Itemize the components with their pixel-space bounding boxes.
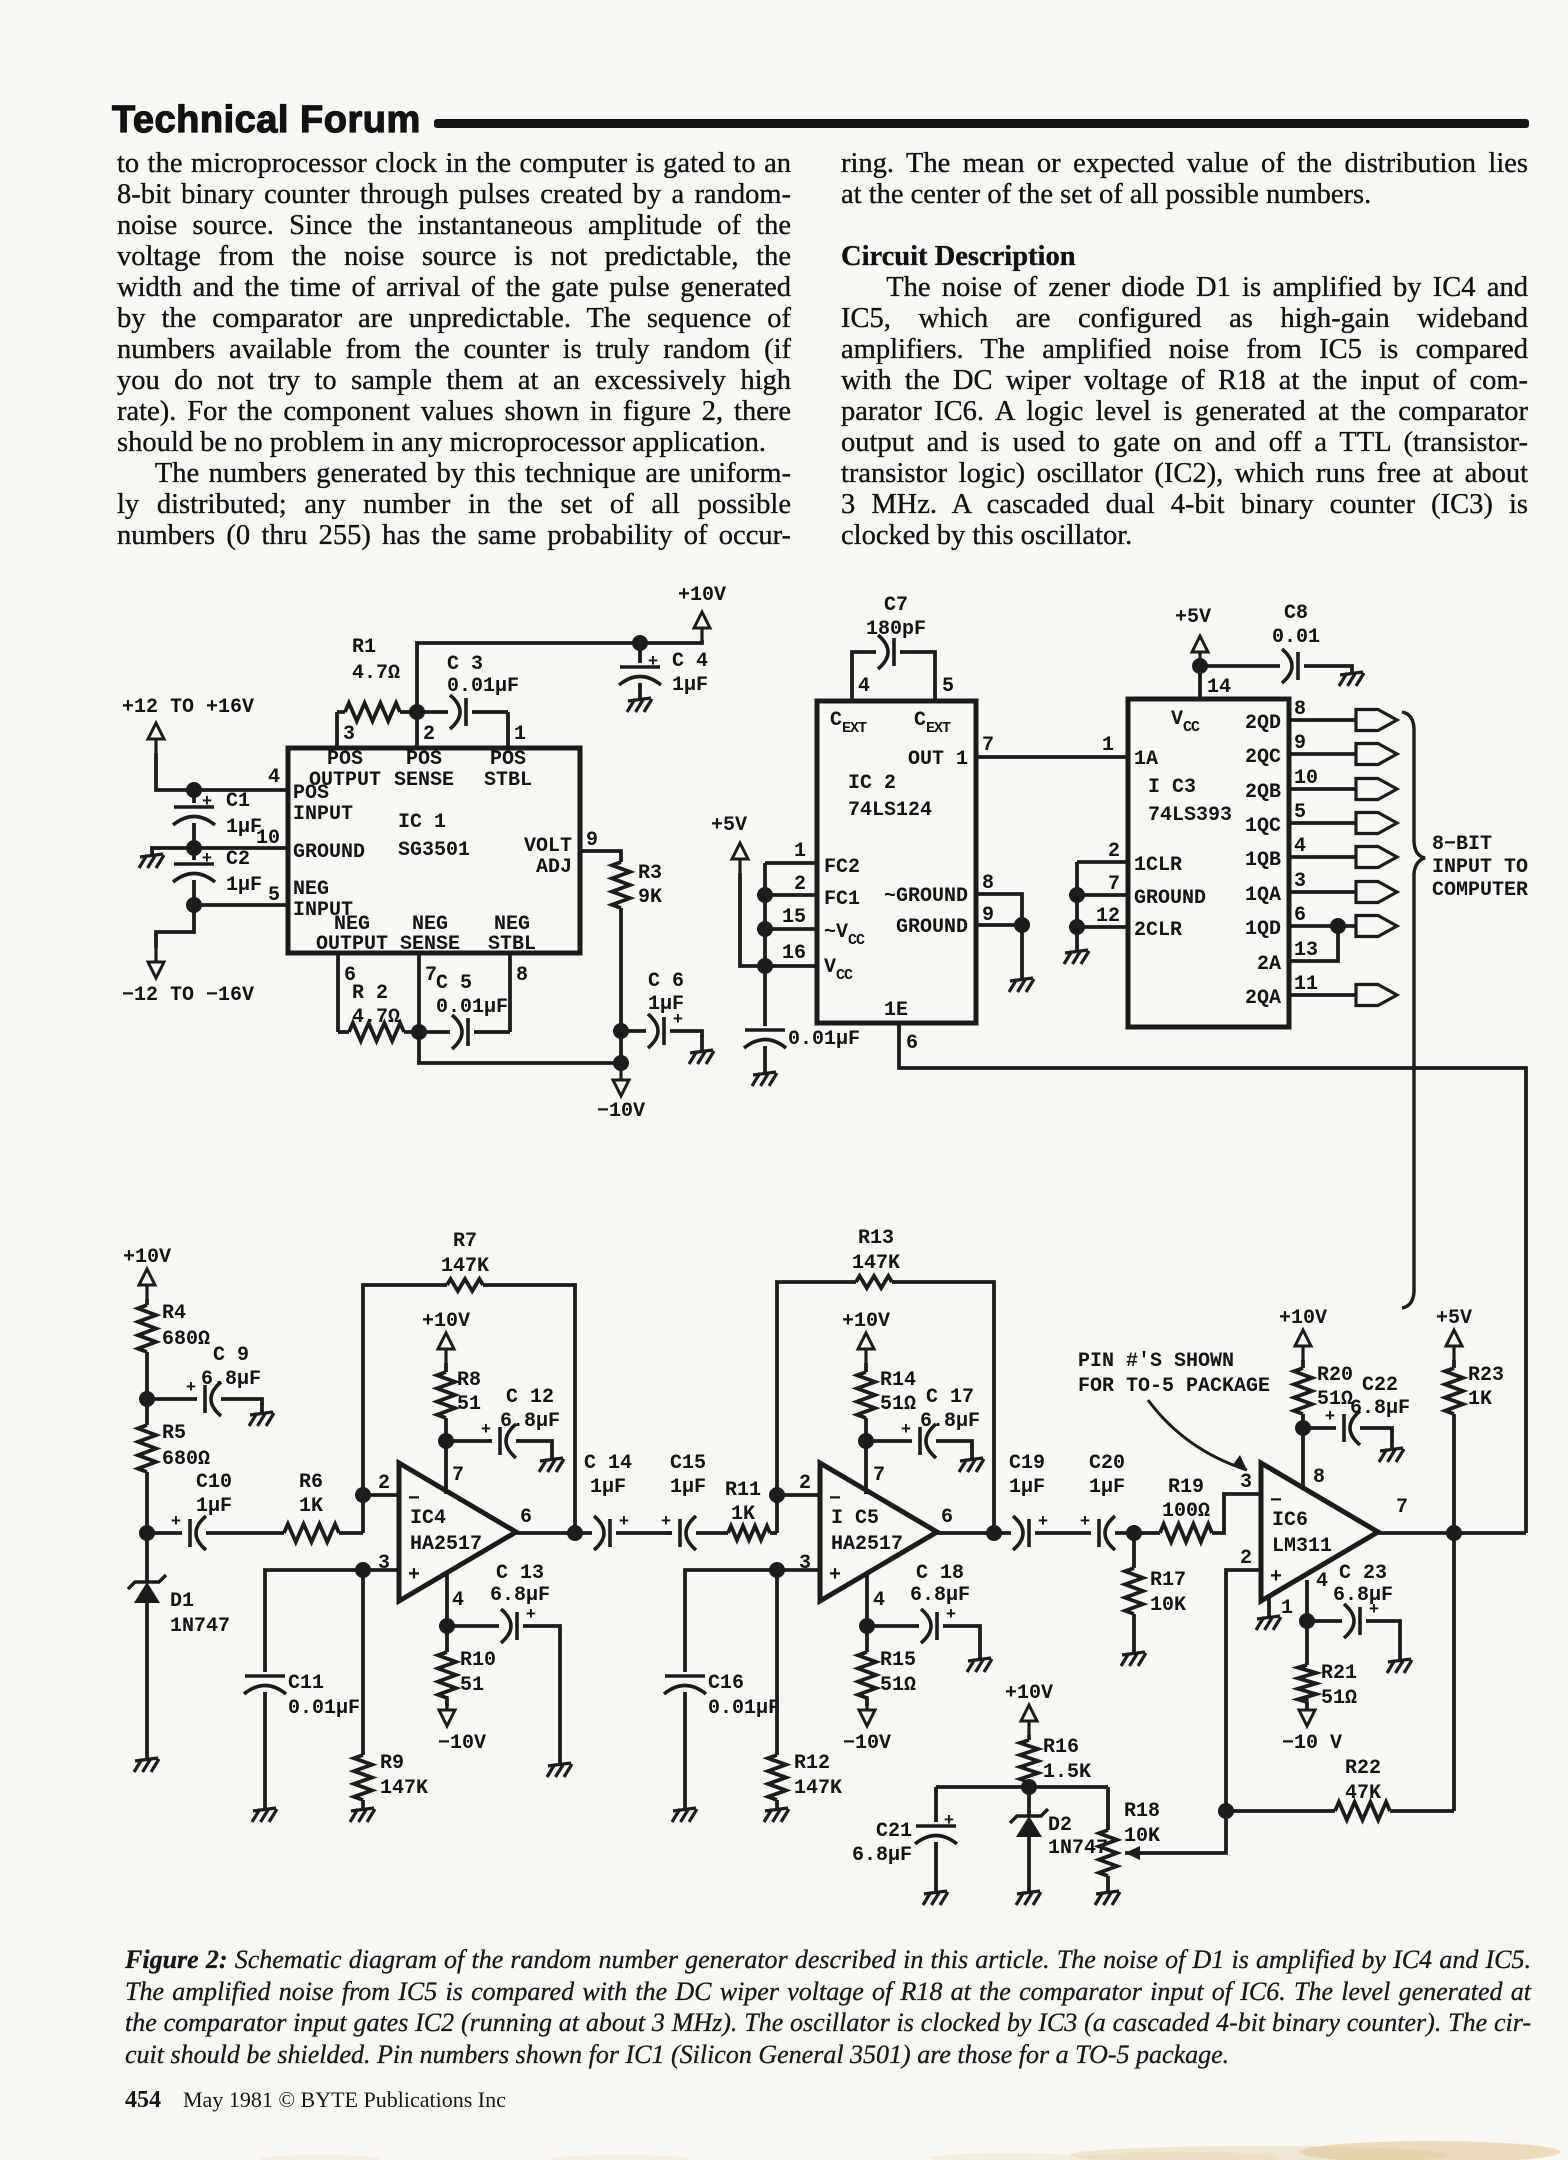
brace 8-bit bus [1402, 712, 1425, 1308]
svg-text:6: 6 [1294, 904, 1306, 927]
zener diode D2 1N747 [1010, 1809, 1048, 1837]
resistor R11 1K [728, 1526, 770, 1540]
svg-text:8: 8 [982, 872, 994, 895]
wire IC6 output [1378, 1531, 1526, 1535]
wire IC3 1QB output [1289, 855, 1356, 859]
svg-text:1A: 1A [1134, 748, 1158, 771]
capacitor C7 180pF [878, 635, 894, 669]
wire R8 top [444, 1363, 448, 1372]
ground C16 [672, 1808, 697, 1822]
wire R14 to node [864, 1418, 868, 1494]
svg-text:2: 2 [794, 873, 806, 896]
wire IC5 fb left vertical [777, 1282, 856, 1533]
capacitor C15 1uF [661, 1513, 696, 1550]
svg-text:4: 4 [1316, 1570, 1328, 1593]
svg-text:VOLTADJ: VOLTADJ [524, 835, 572, 879]
op-amp U-IC5 HA2517 [820, 1463, 937, 1601]
wire IC1 pin3 stub [335, 712, 339, 748]
power +10V R4 [123, 1246, 171, 1299]
wire IC3 1QA output [1289, 890, 1356, 894]
flag output 2QB [1356, 779, 1397, 800]
wire C2 top lead [192, 848, 196, 860]
flag output 1QD [1356, 916, 1397, 937]
wire C19 to C20 [1035, 1531, 1091, 1535]
svg-text:2CLR: 2CLR [1134, 919, 1182, 942]
resistor R5 680ohm [138, 1425, 156, 1472]
node IC4 out [567, 1525, 583, 1541]
wire R9 tail [361, 1800, 365, 1808]
power +10V top [678, 584, 726, 642]
svg-text:0.01μF: 0.01μF [788, 1028, 860, 1051]
svg-text:−10 V: −10 V [1282, 1732, 1342, 1755]
capacitor C14 1uF [594, 1513, 629, 1550]
ground D2 [1016, 1891, 1041, 1905]
ground C4 [627, 698, 652, 712]
svg-text:7: 7 [982, 734, 994, 757]
power -10V R21 [1299, 1696, 1315, 1726]
ground C6 [689, 1050, 714, 1064]
wire R19 to pin3 [1212, 1494, 1261, 1533]
resistor R2 4.7ohm [349, 1023, 404, 1041]
capacitor C8 0.01 [1282, 649, 1298, 683]
potentiometer R18 10K [1099, 1830, 1117, 1876]
svg-text:+10V: +10V [422, 1310, 470, 1333]
wire R13 right to output [892, 1282, 994, 1533]
svg-text:R1551Ω: R1551Ω [880, 1649, 916, 1697]
svg-text:C 126.8μF: C 126.8μF [500, 1386, 560, 1433]
wire C16 tail [683, 1692, 687, 1808]
wire pin3 to C16 [685, 1570, 777, 1672]
wire IC1 pin2 stub [415, 712, 419, 748]
svg-text:6: 6 [906, 1032, 918, 1055]
resistor R16 1.5K [1020, 1740, 1038, 1782]
wire C9 left lead [147, 1397, 197, 1401]
capacitor IC2 bypass 0.01uF [744, 1030, 786, 1048]
node bottom rail right [613, 1055, 629, 1071]
svg-text:R2151Ω: R2151Ω [1321, 1662, 1357, 1710]
svg-text:+: + [408, 1564, 420, 1587]
svg-text:8−BITINPUT TOCOMPUTER: 8−BITINPUT TOCOMPUTER [1432, 833, 1528, 902]
wire C18 left lead [867, 1624, 919, 1628]
svg-text:1: 1 [1281, 1597, 1293, 1620]
wire C15 right [696, 1531, 728, 1535]
svg-text:CEXT: CEXT [830, 709, 867, 737]
svg-text:I C5HA2517: I C5HA2517 [831, 1507, 903, 1556]
wire bias rail [936, 1785, 1108, 1789]
svg-text:R2247K: R2247K [1345, 1757, 1381, 1805]
resistor R20 51ohm [1294, 1368, 1312, 1414]
svg-text:C101μF: C101μF [196, 1471, 232, 1518]
wire C6 right lead [670, 1031, 702, 1050]
wire C21 tail [934, 1842, 938, 1891]
bottom edge scan smudge [0, 2128, 1568, 2160]
wire R1 leads [337, 710, 345, 714]
svg-text:+: + [944, 1812, 954, 1831]
node C20 out [1126, 1525, 1142, 1541]
wire R4 top lead [145, 1299, 149, 1305]
svg-text:10: 10 [1294, 767, 1318, 790]
resistor R4 680ohm [138, 1305, 156, 1352]
wire R12 tail [775, 1800, 779, 1808]
node bus pin15 [757, 921, 773, 937]
power +5V IC2 arrow [732, 843, 748, 873]
wire R3 to C6 node [619, 908, 623, 1063]
svg-text:C110.01μF: C110.01μF [288, 1672, 360, 1720]
ground C22 [1379, 1448, 1404, 1462]
node R16 rail [1021, 1779, 1037, 1795]
ground IC2 bypass [752, 1072, 777, 1086]
wire R21 tail [1305, 1702, 1309, 1708]
wire R14 top [864, 1363, 868, 1372]
wire 2CLR row [1077, 925, 1128, 929]
node 1QD to 2A [1330, 918, 1346, 934]
wire IC6 pin1 [1267, 1596, 1271, 1616]
flag output 2QD [1356, 710, 1397, 731]
svg-text:C191μF: C191μF [1009, 1452, 1045, 1499]
wire pin2 node to +10V rail [417, 643, 640, 712]
power +10V R8 [422, 1310, 470, 1363]
wire C17 left lead [866, 1439, 912, 1443]
svg-text:2: 2 [1240, 1547, 1252, 1570]
capacitor C1 1uF [173, 793, 215, 825]
capacitor C19 1uF [1013, 1513, 1048, 1550]
resistor R23 1K [1445, 1368, 1463, 1414]
wire C14 to C15 [616, 1531, 672, 1535]
wire IC3 2QC output [1289, 752, 1356, 756]
flag output 2QC [1356, 744, 1397, 765]
svg-text:1E: 1E [884, 999, 908, 1022]
svg-text:R1451Ω: R1451Ω [880, 1369, 916, 1416]
node clr bus 2clr [1069, 919, 1085, 935]
wire +5V stem [740, 873, 816, 966]
svg-text:+: + [1325, 1408, 1335, 1427]
svg-text:C 176.8μF: C 176.8μF [920, 1386, 980, 1433]
op-amp U-IC6 LM311 [1261, 1463, 1378, 1601]
wire R16 top [1027, 1735, 1031, 1740]
svg-text:15: 15 [782, 906, 806, 929]
svg-text:C80.01: C80.01 [1272, 602, 1320, 649]
capacitor C16 0.01uF [664, 1676, 706, 1694]
svg-text:+10V: +10V [1005, 1682, 1053, 1705]
wire pin7 to bottom rail [419, 1032, 621, 1063]
ground C11 [252, 1808, 277, 1822]
wire IC5 output [937, 1531, 1011, 1535]
resistor R3 9K [612, 862, 630, 908]
resistor R22 47K [1335, 1802, 1390, 1820]
ground C13 [547, 1763, 572, 1777]
wire IC2 pin1 row [765, 861, 816, 865]
wire C17 right lead [936, 1441, 972, 1458]
IC U-IC2 box 74LS124 [817, 701, 976, 1023]
ground R18 [1095, 1891, 1120, 1905]
svg-text:+12 TO +16V: +12 TO +16V [122, 696, 254, 719]
wire IC5 pin3 stub [777, 1568, 820, 1572]
svg-text:C11μF: C11μF [226, 790, 262, 839]
capacitor C4 1uF [619, 653, 661, 685]
wire R17 top [1132, 1533, 1136, 1568]
svg-text:C21μF: C21μF [226, 848, 262, 897]
node clr bus gnd [1069, 887, 1085, 903]
node IC5 out [986, 1525, 1002, 1541]
node R22 pin2 [1218, 1803, 1234, 1819]
svg-text:+: + [526, 1606, 536, 1625]
svg-text:CEXT: CEXT [914, 709, 951, 737]
wire +12V to pin4 [156, 753, 270, 790]
svg-text:IC6LM311: IC6LM311 [1272, 1509, 1332, 1558]
wire C12 left lead [446, 1439, 492, 1443]
svg-text:+5V: +5V [1175, 606, 1211, 629]
wire R20 top [1301, 1360, 1305, 1368]
resistor R7 147K [447, 1279, 483, 1291]
svg-text:R4680Ω: R4680Ω [162, 1302, 210, 1351]
wire R20 to node [1301, 1414, 1305, 1490]
svg-text:+: + [481, 1421, 491, 1440]
svg-text:R1051: R1051 [460, 1649, 496, 1697]
wire C23 right lead [1366, 1621, 1400, 1659]
node pin9 gnd [1014, 917, 1030, 933]
wire IC6 pin4 [1305, 1580, 1309, 1621]
wire IC1 pin1 stub [506, 712, 510, 748]
node +5V C8 [1192, 658, 1208, 674]
svg-text:2QC: 2QC [1245, 746, 1281, 769]
svg-text:4: 4 [268, 766, 280, 789]
wire IC2 1E to comparator [899, 1023, 1526, 1533]
ground IC6 pin1 [1256, 1616, 1281, 1630]
svg-text:C226.8μF: C226.8μF [1350, 1374, 1410, 1420]
node IC4 pin3 [355, 1562, 371, 1578]
svg-text:3: 3 [1294, 870, 1306, 893]
svg-text:VCC: VCC [824, 956, 853, 984]
wire R19 left [1134, 1531, 1160, 1535]
wire C2 bottom lead [192, 880, 196, 905]
ground IC3 clr bus [1064, 950, 1089, 964]
pot wiper arrow [1125, 1846, 1140, 1860]
svg-text:+: + [1038, 1513, 1048, 1532]
node IC4 pin2 [355, 1487, 371, 1503]
wire C3 left lead [417, 710, 448, 714]
resistor R9 147K [354, 1755, 372, 1800]
wire C1 bottom lead [192, 823, 196, 848]
wire to -12V [156, 905, 194, 948]
svg-text:3: 3 [343, 723, 355, 746]
svg-text:FC2: FC2 [824, 856, 860, 879]
resistor R15 51ohm [858, 1652, 876, 1698]
wire R23 top [1452, 1360, 1456, 1368]
svg-text:5: 5 [1294, 801, 1306, 824]
svg-text:C151μF: C151μF [670, 1452, 706, 1499]
power -10V R15 [859, 1696, 875, 1726]
wire R18 top [1106, 1787, 1110, 1830]
svg-text:GROUND: GROUND [293, 841, 365, 864]
capacitor C3 0.01uF [450, 695, 466, 729]
node IC1 pin2 junction [409, 704, 425, 720]
wire pin4 stub [270, 788, 288, 792]
resistor R14 51ohm [857, 1372, 875, 1418]
svg-text:5: 5 [942, 675, 954, 698]
wire pin5 stub [194, 903, 288, 907]
svg-text:+: + [1270, 1566, 1282, 1589]
flag output 1QB [1356, 847, 1397, 868]
wire R10 tail [445, 1698, 449, 1706]
ground R17 [1121, 1652, 1146, 1666]
svg-text:PIN #'S SHOWNFOR TO-5 PACKAGE: PIN #'S SHOWNFOR TO-5 PACKAGE [1078, 1350, 1270, 1398]
svg-text:2QD: 2QD [1245, 712, 1281, 735]
wire IC4 pin3 stub [363, 1568, 399, 1572]
resistor R6 1K [284, 1524, 339, 1542]
ground R9 [350, 1808, 375, 1822]
svg-text:NEGSTBL: NEGSTBL [488, 913, 536, 956]
wire R7 right to output [483, 1285, 575, 1533]
svg-text:2: 2 [378, 1472, 390, 1495]
svg-text:C201μF: C201μF [1089, 1452, 1125, 1499]
svg-text:FC1: FC1 [824, 888, 860, 911]
svg-text:C 236.8μF: C 236.8μF [1333, 1562, 1393, 1607]
svg-text:1QA: 1QA [1245, 884, 1281, 907]
wire C23 left lead [1307, 1619, 1342, 1623]
svg-text:+: + [901, 1421, 911, 1440]
svg-text:2QB: 2QB [1245, 781, 1281, 804]
svg-text:C 41μF: C 41μF [672, 650, 708, 697]
wire rail to +10V arrow [640, 640, 702, 643]
svg-text:7: 7 [1108, 873, 1120, 896]
header rule [434, 119, 1529, 128]
wire C11 tail [263, 1692, 267, 1808]
wire node to pin10 [194, 846, 288, 850]
wire C10 left lead [147, 1531, 182, 1535]
node D1 C10 [139, 1525, 155, 1541]
svg-text:−10V: −10V [843, 1732, 891, 1755]
svg-text:14: 14 [1207, 676, 1231, 699]
svg-text:+: + [171, 1513, 181, 1532]
svg-text:+: + [202, 850, 212, 869]
wire D2 top [1027, 1787, 1031, 1816]
svg-text:2: 2 [1108, 840, 1120, 863]
wire bypass to ground [763, 1046, 767, 1072]
capacitor C20 1uF [1080, 1513, 1115, 1550]
node ground row [186, 840, 202, 856]
svg-text:1: 1 [794, 840, 806, 863]
power -10V left [613, 1066, 629, 1096]
svg-text:C216.8μF: C216.8μF [852, 1820, 912, 1867]
wire D1 top lead [145, 1533, 149, 1582]
svg-text:R12147K: R12147K [794, 1752, 842, 1800]
flag output 1QA [1356, 882, 1397, 903]
resistor R8 51 [437, 1372, 455, 1418]
wire C20 right [1115, 1531, 1134, 1535]
svg-text:R231K: R231K [1468, 1364, 1504, 1411]
svg-text:OUT 1: OUT 1 [908, 748, 968, 771]
svg-text:C160.01μF: C160.01μF [708, 1672, 780, 1720]
svg-text:1CLR: 1CLR [1134, 854, 1182, 877]
svg-text:11: 11 [1294, 973, 1318, 996]
flag output 1QC [1356, 813, 1397, 834]
wire node to ground [152, 848, 194, 854]
wire IC4 pin2 stub [363, 1493, 399, 1497]
header Technical Forum [112, 99, 421, 142]
capacitor C6 1uF [648, 1011, 683, 1048]
capacitor C10 1uF [171, 1513, 206, 1550]
power +10V R20 [1279, 1307, 1327, 1360]
svg-text:D11N747: D11N747 [170, 1590, 230, 1638]
capacitor C17 6.8uF [901, 1421, 936, 1458]
wire IC2 pin4 stub [852, 652, 876, 701]
svg-text:+10V: +10V [1279, 1307, 1327, 1330]
wire IC4 output [516, 1531, 592, 1535]
node pin7 bottom [411, 1024, 427, 1040]
svg-text:C 136.8μF: C 136.8μF [490, 1562, 550, 1607]
svg-text:3: 3 [1240, 1471, 1252, 1494]
wire C5 right lead [474, 1030, 510, 1034]
wire IC5 pin4 [865, 1573, 869, 1626]
power +5V IC3 arrow [1192, 636, 1208, 666]
wire IC4 fb left vertical [363, 1285, 447, 1533]
wire D1 bottom lead [145, 1603, 149, 1758]
capacitor C22 6.8uF [1325, 1408, 1360, 1445]
wire R22 row right [1390, 1809, 1454, 1813]
power +12V arrow [148, 723, 164, 753]
ground C1 C2 [139, 854, 164, 868]
capacitor C2 1uF [173, 850, 215, 882]
svg-text:16: 16 [782, 942, 806, 965]
svg-text:+: + [661, 1513, 671, 1532]
wire C1 top lead [192, 790, 196, 803]
resistor R19 100ohm [1160, 1524, 1212, 1542]
resistor R12 147K [768, 1755, 786, 1800]
svg-text:+: + [619, 1513, 629, 1532]
svg-text:+: + [186, 1379, 196, 1398]
wire IC4 pin4 [445, 1573, 449, 1626]
svg-text:8: 8 [516, 964, 528, 987]
wire IC3 2QB output [1289, 787, 1356, 791]
svg-text:1QB: 1QB [1245, 849, 1281, 872]
svg-text:4: 4 [1294, 835, 1306, 858]
wire R21 top [1305, 1621, 1309, 1665]
power -12V arrow [148, 948, 164, 978]
ground C18 [967, 1658, 992, 1672]
wire IC2 pin15 row [765, 927, 816, 931]
wire C8 right [1304, 666, 1352, 672]
svg-text:R19100Ω: R19100Ω [1162, 1476, 1210, 1523]
svg-text:R14.7Ω: R14.7Ω [352, 636, 400, 685]
wire C7 right [900, 652, 935, 701]
wire R2 left lead [338, 1030, 349, 1034]
svg-text:−10V: −10V [597, 1100, 645, 1123]
wire R11 to IC5 [770, 1531, 777, 1535]
wire IC3 2QD output [1289, 718, 1356, 722]
svg-text:~GROUND: ~GROUND [884, 885, 968, 908]
svg-text:~VCC: ~VCC [824, 921, 865, 949]
node pin5 row [186, 897, 202, 913]
op-amp U-IC4 HA2517 [399, 1463, 516, 1601]
svg-text:−12 TO −16V: −12 TO −16V [122, 984, 254, 1007]
wire IC2 pin8 [976, 894, 1022, 925]
wire IC1 pin6 stub [336, 953, 340, 1032]
svg-text:13: 13 [1294, 939, 1318, 962]
wire C8 lead [1200, 664, 1280, 668]
resistor R13 147K [856, 1276, 892, 1288]
svg-text:C 186.8μF: C 186.8μF [910, 1562, 970, 1607]
power +10V R14 [842, 1310, 890, 1363]
node C6 junction [613, 1023, 629, 1039]
ground IC2 pins [1009, 978, 1034, 992]
node IC5 pin3 [769, 1562, 785, 1578]
svg-text:POSSENSE: POSSENSE [394, 748, 454, 792]
capacitor C21 6.8uF [915, 1812, 957, 1844]
node IC5 pin2 [769, 1487, 785, 1503]
svg-text:C 30.01μF: C 30.01μF [447, 653, 519, 698]
svg-text:C 50.01μF: C 50.01μF [436, 972, 508, 1019]
wire R6 to IC4 [339, 1531, 363, 1535]
